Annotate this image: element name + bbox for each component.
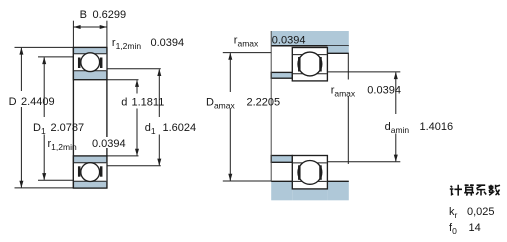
dimension D <box>15 47 74 188</box>
ball bottom <box>81 163 100 182</box>
svg-text:ramax0.0394: ramax0.0394 <box>234 34 306 48</box>
housing band top <box>271 31 349 46</box>
label r12min bottom <box>48 137 128 152</box>
ball top right fig <box>298 52 322 76</box>
top section rings (blue) <box>73 47 107 79</box>
dimension d1 <box>107 69 161 166</box>
ball top <box>81 53 100 72</box>
left cut line <box>270 31 272 181</box>
svg-text:d11.6024: d11.6024 <box>145 122 196 136</box>
groove boundary upper <box>74 53 106 55</box>
svg-text:d1.1811: d1.1811 <box>121 97 164 109</box>
ramax leader lower <box>347 53 349 79</box>
shaft shoulder stub bottom <box>271 156 292 163</box>
dimension Damax <box>223 53 271 181</box>
bottom section rings (blue) <box>73 156 107 188</box>
svg-text:damin1.4016: damin1.4016 <box>385 121 454 135</box>
cage marks <box>78 58 81 69</box>
CJK char suan <box>464 184 474 196</box>
CJK char ji <box>450 185 462 196</box>
dimension damin <box>327 72 400 162</box>
ball bottom right fig <box>298 161 322 185</box>
svg-text:r1,2min0.0394: r1,2min0.0394 <box>112 37 184 51</box>
CJK char shu <box>489 185 500 196</box>
housing bottom center <box>292 189 327 200</box>
dimension B <box>73 21 107 48</box>
bearing silhouette side faces <box>73 47 107 188</box>
svg-text:f014: f014 <box>449 222 481 236</box>
svg-text:r1,2min0.0394: r1,2min0.0394 <box>48 138 126 152</box>
svg-text:kr0,025: kr0,025 <box>449 206 495 220</box>
CJK title 计算系数 drawn as strokes <box>450 184 500 196</box>
svg-text:D2.4409: D2.4409 <box>9 96 55 108</box>
housing bottom right <box>327 181 348 200</box>
bearing section bottom (white) <box>292 156 327 189</box>
svg-text:Damax2.2205: Damax2.2205 <box>206 97 280 111</box>
housing bottom left <box>271 181 292 200</box>
CJK char xi <box>476 185 486 195</box>
svg-text:B0.6299: B0.6299 <box>80 9 127 21</box>
svg-text:ramax0.0394: ramax0.0394 <box>331 85 401 99</box>
groove boundary lower <box>74 70 106 72</box>
shaft shoulder stub top <box>271 72 292 78</box>
dimension D1 <box>38 57 73 180</box>
dimension d <box>107 80 139 156</box>
housing shoulder top right <box>327 46 348 54</box>
raceway white zone <box>74 54 106 71</box>
housing bore line top <box>271 45 349 47</box>
svg-text:D12.0787: D12.0787 <box>33 122 84 136</box>
bearing section top (white) <box>292 48 327 81</box>
